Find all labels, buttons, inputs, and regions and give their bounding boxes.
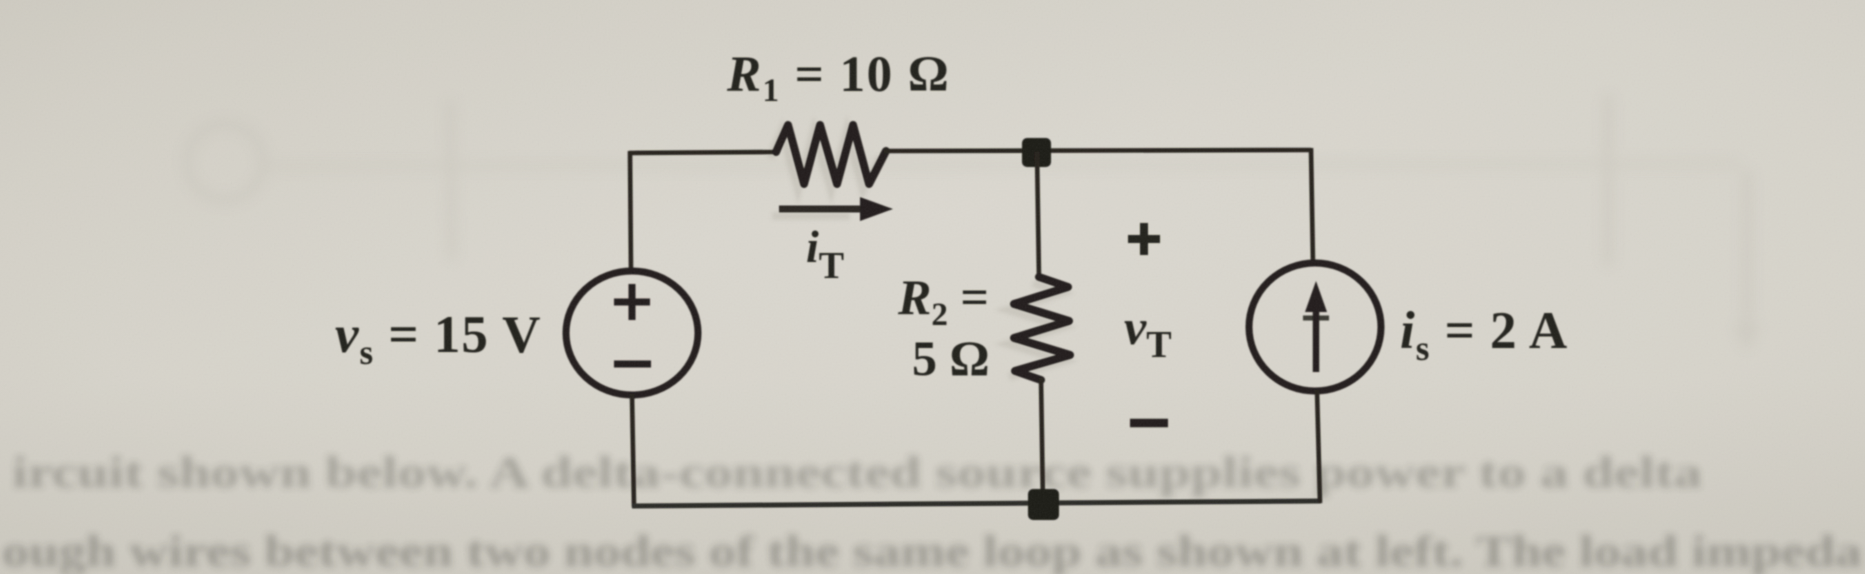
label minus (vT polarity) [1130,419,1168,428]
wire: bottom [632,501,1321,506]
node B (bottom junction) [1028,489,1059,520]
resistor R1 [776,125,886,184]
ghost smudge echoes [770,131,1064,377]
bleed-through text band 1 [12,448,1702,497]
wire: right vertical bottom [1317,390,1320,503]
voltage source minus sign [614,361,651,368]
wire: left vertical bottom [632,394,634,507]
label R1 = 10 ohm [726,47,950,109]
current source arrow [1303,281,1329,372]
voltage source VS circle [566,271,698,395]
wire: middle branch bottom [1041,378,1043,505]
current source IS circle [1249,263,1381,391]
faint reverse-page bleed-through marks [187,95,1761,352]
wire: middle branch top [1037,152,1039,280]
wire: right vertical top [1311,148,1313,264]
label R2 = [897,269,989,333]
current arrow iT under R1 [779,197,893,221]
node A (top junction) [1022,138,1051,167]
label is = 2 A [1400,302,1568,368]
label 5 ohm [912,330,990,386]
label plus (vT polarity) [1128,223,1160,255]
resistor R2 [1014,277,1070,380]
wire: left vertical top [630,151,631,272]
bleed-through text band 2 [2,527,1862,574]
label iT [806,221,844,287]
wire: top right segment [884,150,1311,151]
voltage source plus sign [614,284,650,320]
label vT [1124,299,1172,366]
label vs = 15 V [335,306,541,372]
wire: top left segment [629,152,779,153]
